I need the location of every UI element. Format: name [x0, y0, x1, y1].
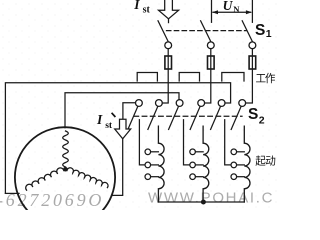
tap stub 3a: [237, 151, 245, 153]
S2 blade 4: [190, 106, 200, 129]
S2 blade 5: [211, 106, 221, 129]
fuse FU1: [165, 56, 172, 69]
motor M body circle: [15, 127, 115, 227]
tap circle 2b: [190, 162, 196, 168]
tap stub 1a: [151, 151, 159, 153]
tap stub 2a: [196, 151, 204, 153]
S1 linkage dashed line: [167, 30, 247, 32]
dimension line UN: [213, 11, 251, 13]
svg-text:st: st: [105, 120, 113, 131]
tap stub 1c: [151, 176, 159, 178]
tap stub 3c: [237, 176, 245, 178]
tap circle 2a: [190, 149, 196, 155]
wire from Ist' arrow to motor lead 3: [112, 139, 123, 196]
tap circle 1c: [145, 174, 151, 180]
S2 contact circle 2: [156, 100, 163, 107]
svg-text:N: N: [233, 4, 240, 14]
tap circle 3a: [231, 149, 237, 155]
switch S1 pole 2 blade: [201, 21, 211, 42]
S2 blade 6: [231, 106, 241, 129]
S2 contact circle 4: [198, 100, 205, 107]
S2 contact circle 6: [239, 100, 246, 107]
autotransformer coil T1: [158, 126, 164, 202]
start tap selector wire phase 1: [139, 120, 145, 165]
motor winding 1 (top, wavy): [63, 131, 69, 167]
S1 pole 2 hinge circle: [207, 42, 214, 49]
wire from S2 contact 1 to Ist' arrow: [123, 103, 135, 120]
supply line L2: [211, 0, 213, 22]
svg-text:WWW.POHAI.C: WWW.POHAI.C: [148, 190, 274, 207]
svg-text:I: I: [133, 0, 140, 12]
S2 contact circle 5: [218, 100, 225, 107]
fuse FU3: [249, 56, 256, 69]
run-position contact jaw bracket 2: [179, 73, 199, 82]
wire bus A: motor lead 1 to S2 contact 5: [5, 83, 230, 194]
supply line L3: [251, 0, 253, 22]
run-position contact jaw bracket 3: [222, 73, 244, 82]
start tap selector wire phase 3: [225, 120, 231, 165]
star-point bus of autotransformer: [158, 201, 244, 203]
wire L1 stub to switch S1 pole 1: [168, 19, 170, 23]
tap circle 1b: [145, 162, 151, 168]
svg-text:工作: 工作: [256, 73, 276, 85]
motor winding 3 (lower right, wavy): [67, 168, 108, 188]
tap circle 2c: [190, 174, 196, 180]
svg-text:S: S: [248, 106, 258, 123]
S2 contact circle 3: [176, 100, 183, 107]
motor winding 2 (lower left, wavy): [26, 168, 64, 190]
tap stub 2b: [196, 164, 204, 166]
svg-text:1: 1: [266, 28, 272, 40]
wire S1 pole1 to fuse FU1 and down to S2 contact 2: [162, 49, 168, 103]
S2 linkage dashed line: [134, 115, 242, 117]
tap stub 1b: [151, 164, 159, 166]
dimension arrowhead left: [212, 10, 218, 14]
switch S1 pole 1 blade: [158, 21, 168, 42]
supply arrow Ist (hollow down arrow, line L1): [159, 0, 179, 19]
dimension arrowhead right: [246, 10, 252, 14]
tap circle 3b: [231, 162, 237, 168]
tap circle 3c: [231, 174, 237, 180]
svg-text:st: st: [143, 5, 151, 16]
S2 contact circle 1: [136, 100, 143, 107]
wire S1 pole3 to fuse FU3 and down to S2 contact 6: [246, 49, 253, 103]
svg-text:U: U: [223, 0, 234, 13]
fuse FU2: [208, 56, 215, 69]
motor star junction dot: [63, 167, 68, 172]
svg-text:S: S: [255, 22, 265, 39]
start tap selector wire phase 2: [184, 120, 190, 165]
S1 pole 3 hinge circle: [249, 42, 256, 49]
wire bus B: motor lead 2 to S2 contact 3: [65, 93, 179, 128]
switch S1 pole 3 blade: [242, 21, 252, 42]
tap stub 3b: [237, 164, 245, 166]
S1 pole 1 hinge circle: [165, 42, 172, 49]
S2 blade 3: [169, 106, 179, 129]
Ist' hollow arrow on wire to motor lead 3: [115, 119, 131, 139]
svg-text:起动: 起动: [255, 156, 275, 168]
tap stub 2c: [196, 176, 204, 178]
motor lead 1 entry: [5, 192, 19, 194]
S2 blade 2: [148, 106, 158, 129]
S2 blade 1: [128, 106, 138, 129]
tap circle 1a: [145, 149, 151, 155]
svg-text:I: I: [96, 112, 103, 127]
svg-text:2: 2: [259, 115, 265, 127]
autotransformer coil T2: [203, 126, 209, 202]
autotransformer coil T3: [244, 126, 250, 202]
label Ist' prime mark: [112, 113, 116, 117]
wire S1 pole2 to fuse FU2 and down to S2 contact 4: [205, 49, 211, 103]
run-position contact jaw bracket 1: [137, 73, 157, 82]
